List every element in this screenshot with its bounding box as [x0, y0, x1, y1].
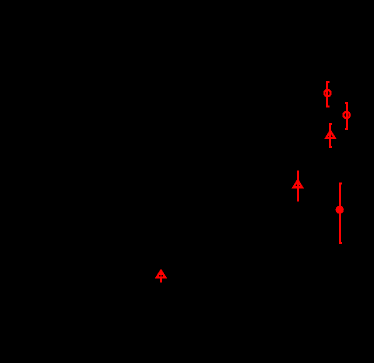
- data point 3: open triangle with error bar: [326, 123, 334, 148]
- data point 4: open triangle with error bar (no caps): [294, 171, 302, 202]
- data point 2: open circle with error bar: [343, 102, 349, 129]
- data point 5: filled circle with error bar: [336, 182, 344, 243]
- data point 1: open circle with error bar: [324, 81, 330, 107]
- data point 6: open triangle with short error bar: [157, 270, 166, 283]
